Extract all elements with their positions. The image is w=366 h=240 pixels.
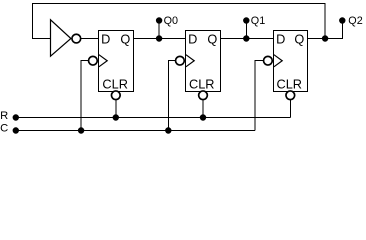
svg-text:CLR: CLR (277, 76, 303, 91)
svg-text:R: R (0, 110, 8, 122)
D flip-flop FF1 (99, 31, 134, 92)
svg-text:D: D (188, 31, 197, 46)
svg-text:Q1: Q1 (251, 15, 265, 27)
wire FF2 Q to FF3 D (221, 38, 274, 40)
wire C bus to FF1 clock (81, 61, 98, 131)
FF1 clock edge triangle (99, 55, 107, 67)
inverter output bubble (72, 34, 81, 43)
junction FF2 Q / Q1 stub (243, 35, 249, 41)
wire FF1 Q to FF2 D (134, 38, 186, 40)
svg-text:Q2: Q2 (348, 15, 362, 27)
D flip-flop FF3 (274, 31, 308, 92)
node Q2 terminal dot (339, 17, 345, 23)
svg-text:C: C (0, 123, 8, 135)
wire FF2 CLR to R bus (202, 92, 204, 118)
svg-text:Q: Q (294, 31, 304, 46)
wire R bus (16, 117, 291, 119)
junction FF3 Q / feedback (322, 35, 328, 41)
wire C bus to FF2 clock (168, 61, 185, 131)
svg-text:Q0: Q0 (164, 15, 178, 27)
wire FF3 CLR to R bus (289, 92, 291, 118)
wire inverter output to FF1 D input (77, 38, 99, 40)
wire feedback loop from Q2 junction over the top to the inverter input (33, 4, 326, 39)
wire Q1 output stub (245, 21, 247, 39)
node R terminal dot (13, 114, 19, 120)
wire C bus to FF3 clock (255, 61, 273, 131)
wire C bus (16, 130, 255, 132)
svg-text:D: D (101, 31, 110, 46)
svg-text:Q: Q (120, 31, 130, 46)
junction C bus / FF1 clock (78, 127, 84, 133)
wire FF3 Q to Q2 output (308, 21, 343, 39)
svg-text:CLR: CLR (189, 76, 215, 91)
svg-text:CLR: CLR (102, 76, 128, 91)
FF2 CLR bubble (199, 91, 208, 100)
junction R bus / FF2 CLR (200, 114, 206, 120)
FF1 CLR bubble (111, 91, 120, 100)
wire FF1 CLR to R bus (115, 92, 117, 118)
FF2 clock bubble (176, 56, 185, 65)
junction FF1 Q / Q0 stub (156, 35, 162, 41)
svg-text:Q: Q (207, 31, 217, 46)
FF3 clock bubble (264, 56, 273, 65)
node C terminal dot (13, 127, 19, 133)
FF3 clock edge triangle (274, 55, 282, 67)
svg-text:D: D (276, 31, 285, 46)
FF2 clock edge triangle (186, 55, 194, 67)
junction C bus / FF2 clock (165, 127, 171, 133)
D flip-flop FF2 (186, 31, 221, 92)
FF1 clock bubble (89, 56, 98, 65)
FF3 CLR bubble (286, 91, 295, 100)
wire Q0 output stub (158, 21, 160, 39)
inverter U1 (51, 20, 71, 56)
junction R bus / FF1 CLR (113, 114, 119, 120)
node Q0 terminal dot (156, 17, 162, 23)
node Q1 terminal dot (243, 17, 249, 23)
